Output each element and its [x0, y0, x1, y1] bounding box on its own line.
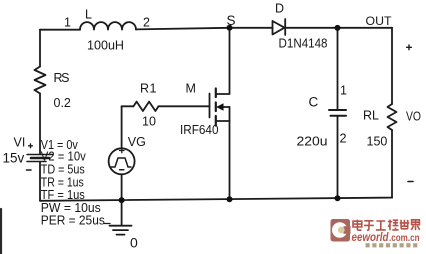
svg-text:0.2: 0.2: [54, 96, 71, 110]
svg-text:VI: VI: [14, 136, 26, 150]
svg-text:PER = 25us: PER = 25us: [41, 214, 105, 228]
svg-text:VO: VO: [406, 110, 421, 124]
svg-text:RS: RS: [54, 71, 70, 85]
svg-text:VG: VG: [128, 135, 146, 149]
svg-text:IRF640: IRF640: [180, 123, 219, 137]
svg-text:TD = 5us: TD = 5us: [41, 163, 85, 177]
svg-text:V2 = 10v: V2 = 10v: [41, 150, 87, 164]
svg-text:0: 0: [130, 235, 138, 251]
svg-text:.com.cn: .com.cn: [389, 232, 420, 244]
svg-text:OUT: OUT: [366, 14, 393, 28]
svg-text:C: C: [309, 95, 319, 110]
svg-text:RL: RL: [363, 109, 379, 123]
svg-text:L: L: [85, 8, 92, 22]
svg-text:2: 2: [340, 132, 347, 146]
svg-text:D1N4148: D1N4148: [279, 37, 328, 51]
svg-text:2: 2: [143, 16, 150, 30]
svg-text:M: M: [186, 82, 196, 96]
svg-text:eeworld: eeworld: [352, 232, 390, 244]
svg-text:TF = 1us: TF = 1us: [41, 188, 85, 202]
svg-text:R1: R1: [140, 82, 157, 96]
svg-text:D: D: [275, 2, 284, 16]
svg-text:150: 150: [367, 135, 388, 149]
svg-text:220u: 220u: [297, 135, 328, 149]
svg-text:10: 10: [142, 115, 156, 129]
svg-text:100uH: 100uH: [87, 39, 124, 53]
svg-text:S: S: [227, 13, 236, 28]
svg-text:1: 1: [64, 16, 71, 30]
svg-text:1: 1: [340, 84, 347, 98]
svg-text:15v: 15v: [3, 151, 25, 166]
